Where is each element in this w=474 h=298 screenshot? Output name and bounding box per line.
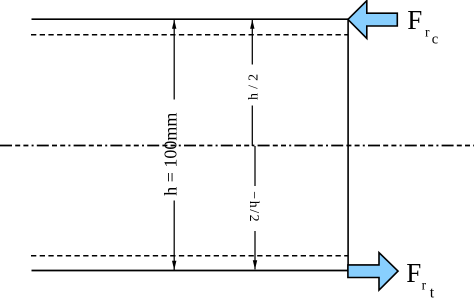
dimension arrowhead up (h/2): [250, 20, 254, 29]
top inner dashed line: [31, 34, 348, 36]
dimension line h/2 lower segment: [251, 106, 253, 147]
dimension line -h/2 lower segment: [254, 231, 256, 269]
svg-text:−h/2: −h/2: [246, 191, 261, 223]
svg-text:F: F: [406, 258, 421, 288]
neutral axis centerline: [0, 145, 474, 147]
dimension arrowhead up (h=100mm): [172, 20, 176, 29]
svg-text:r: r: [422, 277, 427, 292]
dimension arrowhead down (-h/2): [253, 260, 257, 269]
dimension line h=100mm upper segment: [173, 20, 175, 100]
svg-text:r: r: [425, 24, 430, 39]
dimension line -h/2 upper segment: [254, 146, 256, 186]
svg-text:h/2: h/2: [247, 70, 262, 100]
svg-text:c: c: [432, 32, 438, 48]
svg-text:F: F: [407, 5, 422, 35]
compressive force arrow Frc (pointing left): [348, 1, 397, 39]
tensile force arrow Frt (pointing right): [348, 253, 398, 291]
right web vertical line: [347, 18, 349, 271]
svg-text:t: t: [430, 284, 435, 298]
top flange solid line: [32, 18, 349, 20]
bottom flange solid line: [32, 270, 349, 272]
dimension line h/2 upper segment: [251, 20, 253, 65]
bottom inner dashed line: [31, 255, 348, 257]
svg-text:h = 100mm: h = 100mm: [161, 113, 181, 196]
dimension arrowhead down (h=100mm): [172, 261, 176, 270]
dimension line h=100mm lower segment: [173, 201, 175, 271]
